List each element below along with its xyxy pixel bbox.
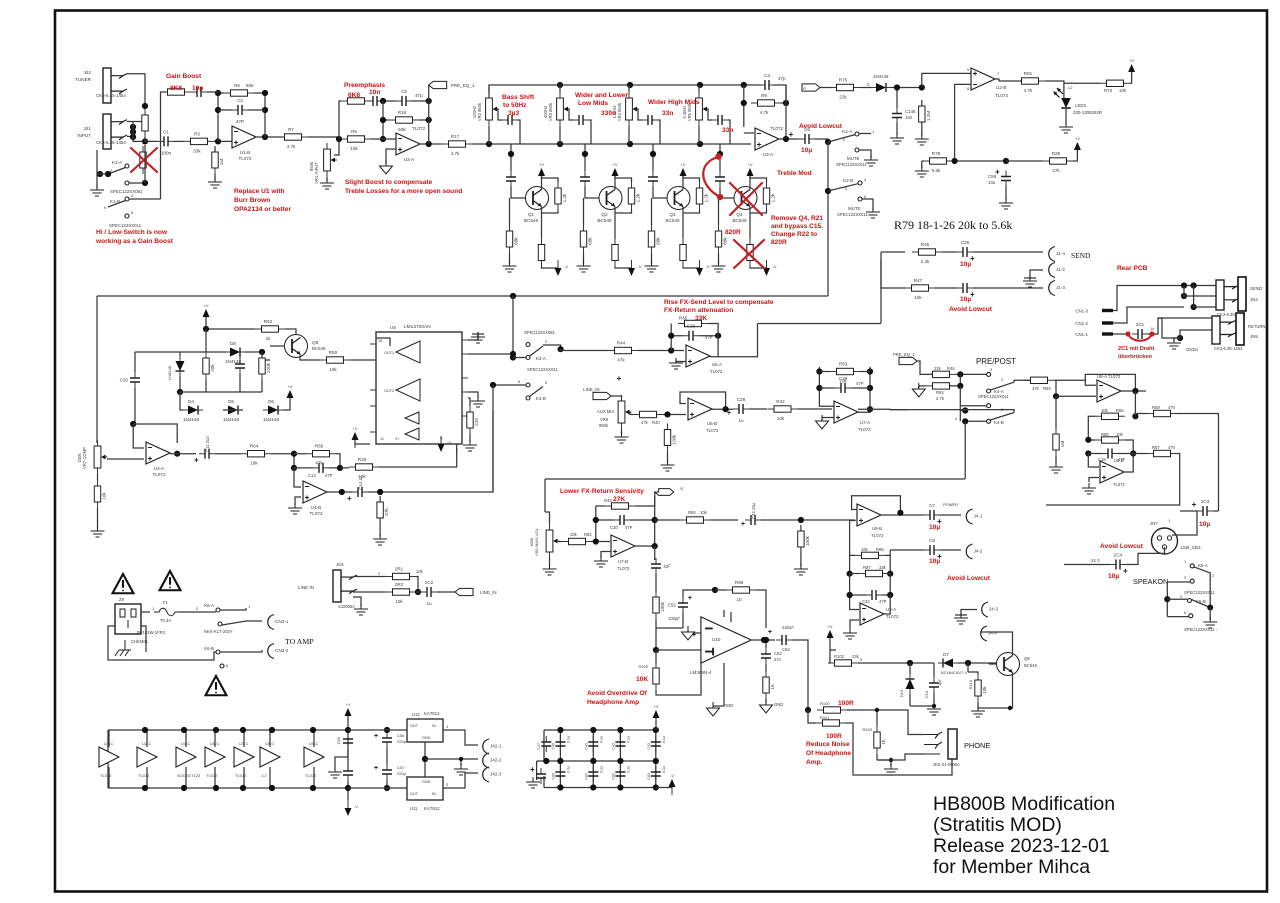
vee Q1 [555, 260, 569, 276]
svg-text:U1-C: U1-C [104, 741, 113, 746]
svg-text:Burr Brown: Burr Brown [234, 197, 270, 204]
junction fb cap right [262, 107, 268, 113]
wire R84 branch [932, 374, 960, 386]
ground U5 a [471, 332, 485, 343]
wire U5 out1 loop [376, 338, 390, 346]
svg-text:1N4148: 1N4148 [183, 417, 200, 422]
svg-text:C64: C64 [924, 690, 929, 698]
svg-text:U9-B: U9-B [872, 526, 882, 531]
op-amp U3-A [755, 128, 779, 150]
resistor R41 100k [664, 424, 676, 452]
capacitor C25 10u [957, 240, 975, 263]
wire send line left [881, 252, 905, 323]
svg-text:SPEC122SX011: SPEC122SX011 [527, 367, 558, 372]
svg-text:R84: R84 [936, 390, 944, 395]
wire VR5 top [698, 85, 700, 92]
wire VR3 bottom [559, 126, 561, 144]
wire R26 to vcc [1073, 150, 1077, 161]
svg-text:C62: C62 [774, 651, 782, 656]
capacitor C26 47P [683, 324, 699, 341]
wire R110 branch [967, 663, 969, 672]
svg-text:R45: R45 [679, 316, 688, 321]
junction bias bottom 5 [269, 785, 275, 791]
svg-text:5.6k: 5.6k [932, 168, 941, 173]
wire C64 branch [933, 663, 935, 677]
svg-text:OUT2: OUT2 [384, 389, 394, 393]
junction U7A fb d [867, 385, 873, 391]
wire R73 to vcc [1130, 72, 1132, 83]
svg-text:Hi / Low-Switch is now: Hi / Low-Switch is now [96, 229, 168, 236]
wire C63 right [792, 640, 808, 710]
wire R110 wires [968, 672, 1010, 708]
vcc Q1 [538, 162, 545, 184]
svg-text:R59: R59 [1152, 405, 1160, 410]
resistor R1 (bypassed) [140, 146, 146, 174]
svg-text:PRE_EQ_1: PRE_EQ_1 [893, 352, 915, 357]
wire R46 to k4 [956, 373, 987, 375]
capacitor C6 10u [799, 127, 815, 144]
svg-text:C8: C8 [929, 538, 935, 543]
svg-text:1k: 1k [881, 739, 886, 745]
wire K6-A nc [222, 621, 262, 625]
junction K2 bus mid [825, 188, 831, 194]
svg-text:OUT: OUT [410, 724, 419, 728]
svg-text:U8-B: U8-B [1114, 458, 1124, 463]
svg-text:0.1u: 0.1u [626, 766, 630, 773]
resistor R59 470 [1147, 410, 1177, 416]
connector J4-4 [981, 626, 987, 641]
junction U8A out [1132, 388, 1138, 394]
wire diode string [180, 392, 290, 410]
svg-text:100k: 100k [660, 601, 665, 612]
svg-text:U6-B: U6-B [707, 421, 717, 426]
wire emitter res Q4 [750, 213, 767, 268]
junction U2A out [426, 141, 432, 147]
capacitor base Q2 [580, 171, 590, 187]
svg-text:4.7k: 4.7k [287, 144, 296, 149]
capacitor grid top 2 [588, 736, 598, 752]
resistor R46 22k [926, 371, 956, 377]
wire vcc to R102 [829, 638, 836, 663]
junction K5 pole2 [1207, 605, 1213, 611]
wire Q6 emitter [1010, 673, 1013, 709]
svg-text:C14 1u: C14 1u [358, 476, 363, 490]
capacitor C64 1uF [929, 677, 939, 693]
resistor 2R1 10k [386, 567, 416, 580]
capacitor EQ band 4 [712, 115, 728, 125]
svg-text:R36: R36 [358, 457, 367, 462]
capacitor C63 220uF [776, 635, 792, 645]
ground VR8 [615, 432, 629, 443]
ground cap grid [526, 777, 540, 788]
svg-text:U3-A: U3-A [763, 152, 774, 157]
wire VR7 wiper to U4A [107, 458, 144, 460]
wire grid bottom bus [544, 787, 656, 789]
svg-text:47P: 47P [625, 525, 633, 530]
svg-text:33k: 33k [193, 148, 201, 153]
svg-text:POWER: POWER [943, 502, 958, 507]
wire K2-B arm [828, 184, 858, 191]
wire C6 to K2 [815, 139, 828, 142]
svg-text:C61: C61 [584, 773, 588, 780]
svg-text:VR1 INPUT: VR1 INPUT [314, 162, 319, 184]
resistor R2 1M [142, 109, 148, 137]
wire K3-B arm [493, 385, 543, 397]
svg-text:0.1u: 0.1u [662, 766, 666, 773]
junction bias cap top [345, 727, 351, 733]
junction U5 out node [510, 351, 516, 357]
svg-text:R65: R65 [315, 444, 324, 449]
wire grid column 3 [619, 730, 621, 788]
junction rear a [1181, 282, 1187, 288]
red node top C15 [715, 153, 721, 159]
svg-text:Z9: Z9 [119, 597, 125, 602]
svg-text:Change R22 to: Change R22 to [771, 231, 817, 238]
ground R37 [373, 534, 387, 545]
capacitor C34 47P [866, 590, 882, 600]
svg-text:R16: R16 [398, 110, 407, 115]
svg-text:R17: R17 [451, 134, 460, 139]
wire C26 leads [671, 335, 718, 337]
svg-text:1.2k: 1.2k [704, 193, 709, 202]
svg-text:L2: L2 [1068, 85, 1073, 90]
junction U4A fb top [130, 421, 136, 427]
ic U5 LM13700AN body [376, 332, 462, 444]
capacitor C68 [343, 765, 353, 781]
wire U10 gnd bottom [713, 705, 724, 707]
ground R85 [794, 564, 808, 575]
svg-text:Slight Boost to compensate: Slight Boost to compensate [345, 179, 433, 186]
resistor R45 33K [678, 316, 708, 327]
svg-text:working as a Gain Boost: working as a Gain Boost [95, 238, 174, 245]
junction U4A out [174, 451, 180, 457]
junction preemph mid [380, 98, 386, 104]
wire base cap to base Q1 [511, 187, 531, 198]
resistor R9 4.7k [751, 93, 781, 115]
svg-text:1.2M: 1.2M [926, 111, 931, 121]
svg-text:U10: U10 [712, 637, 721, 642]
svg-text:Avoid Lowcut: Avoid Lowcut [949, 306, 993, 313]
svg-text:4.7k: 4.7k [936, 396, 945, 401]
resistor R29 1.2k [763, 182, 775, 210]
diode D10 1N4148 [906, 674, 915, 694]
resistor R110 10k [975, 674, 987, 702]
capacitor base Q3 [648, 171, 658, 187]
junction opamp out [783, 136, 789, 142]
junction U4B out [339, 489, 345, 495]
wire K2 riser [827, 142, 829, 296]
wire emitter Q4 [749, 207, 751, 214]
wire Z9 to fuse [141, 611, 150, 613]
junction R58 node [1053, 393, 1059, 399]
capacitor C49 10u [191, 87, 207, 97]
svg-text:2C4: 2C4 [1114, 553, 1123, 558]
wire R51 bottom [205, 380, 207, 392]
wire R84b to C33 [710, 519, 738, 521]
wire U4B out [327, 491, 352, 493]
svg-text:10µ: 10µ [929, 558, 940, 565]
junction U7A fb a [816, 368, 822, 374]
wire CN1-3 up [1113, 286, 1216, 311]
op-amp U6-B [688, 398, 712, 420]
wire EQ band cap 2 down [589, 120, 591, 144]
junction k4 node a [957, 371, 963, 377]
svg-text:U7-C: U7-C [239, 741, 248, 746]
wire C7 to J41 out [940, 514, 961, 516]
connector J4-3 [982, 602, 988, 617]
junction bias bottom 2 [181, 785, 187, 791]
svg-text:10: 10 [736, 597, 742, 602]
junction gnd zener [932, 704, 936, 708]
svg-text:220µ: 220µ [397, 739, 407, 744]
svg-text:C17: C17 [537, 743, 541, 750]
wire 2C3 wires [1180, 510, 1219, 512]
svg-text:J42-1: J42-1 [490, 744, 502, 749]
wire U1-C vcc [108, 730, 110, 788]
junction k4 node b [957, 383, 963, 389]
wire K1-B arm [108, 201, 126, 208]
junction U1 inv node [215, 138, 221, 144]
wire K5 pin6 [1167, 616, 1189, 618]
capacitor C56 220u [382, 732, 392, 748]
svg-text:MUTE: MUTE [847, 156, 860, 161]
svg-text:8K6: 8K6 [170, 85, 182, 92]
svg-text:D5: D5 [228, 399, 234, 404]
wire R39 wires [468, 398, 470, 442]
svg-text:K6-A: K6-A [204, 603, 214, 608]
svg-text:R44: R44 [617, 341, 626, 346]
op-amp U7-A [834, 401, 858, 423]
svg-text:U2-A: U2-A [404, 157, 415, 162]
junction out node top [783, 100, 789, 106]
svg-text:47P: 47P [879, 599, 887, 604]
svg-text:Treble Mod: Treble Mod [777, 170, 812, 177]
plug CN1-2 [1102, 321, 1113, 324]
wire C62 branch [765, 640, 767, 648]
svg-text:10K: 10K [636, 676, 648, 683]
svg-text:+V: +V [352, 426, 357, 431]
wire U9A in [850, 595, 859, 610]
wire grid top bus [544, 729, 656, 731]
ground C146 [890, 133, 904, 144]
wire VR1 bottom [326, 177, 328, 181]
net flag LINE_IN mid [593, 392, 611, 399]
svg-text:Avoid Lowcut: Avoid Lowcut [799, 123, 843, 130]
svg-text:U6-C: U6-C [210, 741, 219, 746]
resistor R98 10 [726, 580, 756, 602]
junction rear c [1181, 293, 1187, 299]
svg-text:+V: +V [345, 702, 350, 707]
junction rear d [1191, 304, 1197, 310]
wire U9-C vcc [313, 730, 315, 788]
svg-text:220uF: 220uF [782, 625, 794, 630]
junction C59 node [1003, 158, 1009, 164]
svg-text:+: + [374, 765, 378, 772]
svg-text:U12: U12 [412, 712, 420, 717]
net flag A top [802, 84, 820, 91]
wire U6A fb left [670, 324, 672, 351]
svg-text:CN3-1: CN3-1 [275, 619, 289, 624]
svg-text:K5-A: K5-A [1198, 563, 1208, 568]
connector J1-4 SEND [1049, 247, 1055, 262]
svg-text:C63: C63 [647, 773, 651, 780]
wire Z9 bottom loop [108, 626, 216, 660]
svg-text:IN: IN [432, 724, 436, 728]
wire U4B gnd [295, 497, 301, 505]
connector J4-2 [966, 544, 972, 559]
wire collector Q1 [541, 176, 543, 190]
junction bias cap bottom [345, 785, 351, 791]
wire U2B inv [955, 84, 972, 161]
svg-text:+V: +V [1129, 58, 1134, 63]
ground Q4 cell [712, 261, 726, 272]
svg-text:U11: U11 [410, 806, 418, 811]
wire long bus y296 [97, 295, 828, 297]
op-amp U2-B [971, 68, 995, 90]
wire K5 gnd [1209, 608, 1211, 621]
junction bias bottom 3 [213, 785, 219, 791]
junction c52 top [712, 587, 718, 593]
svg-text:100R: 100R [826, 733, 842, 740]
wire K2-A nc2 gnd [859, 150, 871, 158]
svg-text:50k: 50k [246, 83, 254, 88]
wire R8 out [371, 138, 396, 140]
wire R103 gnd [877, 760, 891, 766]
wire R87 wires [850, 573, 891, 575]
svg-text:J1-4: J1-4 [1056, 251, 1065, 256]
wire VR2 top [488, 85, 490, 92]
wire R22 gnd [718, 253, 720, 264]
svg-text:22k: 22k [852, 654, 860, 659]
svg-text:Q8: Q8 [312, 340, 319, 345]
wire k6 links [141, 626, 146, 652]
wire R50 to U5 [350, 359, 376, 361]
svg-text:C52: C52 [668, 603, 677, 608]
svg-text:R103: R103 [862, 727, 872, 732]
svg-text:TL072: TL072 [305, 773, 317, 778]
switch K6-B [216, 650, 220, 654]
capacitor grid top 1 [555, 736, 565, 752]
wire C20 to U4A [133, 423, 135, 425]
vee Q2 [628, 260, 642, 276]
svg-text:47k: 47k [641, 420, 649, 425]
svg-text:CN3-2: CN3-2 [275, 648, 289, 653]
wire VR9 wiper [558, 541, 562, 543]
junction EQ top bus 4 [741, 82, 747, 88]
wire K3B riser [492, 385, 494, 492]
svg-text:10k: 10k [777, 416, 785, 421]
svg-text:SPEC122SX011: SPEC122SX011 [837, 212, 868, 217]
svg-text:U4-A: U4-A [154, 466, 165, 471]
svg-text:Headphone Amp: Headphone Amp [587, 699, 639, 706]
wire C62 to R99 [765, 664, 767, 672]
svg-text:C18: C18 [1098, 457, 1106, 462]
svg-text:C1: C1 [163, 129, 169, 134]
wire return line [881, 260, 905, 288]
ground R41 [661, 460, 675, 471]
wire R16 left [383, 119, 429, 121]
svg-text:Treble Losses for a more open: Treble Losses for a more open sound [345, 188, 462, 195]
svg-text:GND: GND [774, 702, 783, 707]
resistor R53b 220k [259, 352, 271, 380]
junction bias bottom 1 [142, 785, 148, 791]
wire K2-A nc [859, 133, 871, 135]
svg-text:C41: C41 [584, 743, 588, 750]
wire U9B out [881, 514, 924, 516]
wire Q6 base [989, 663, 997, 664]
capacitor 2C4 10u [1110, 553, 1128, 576]
potentiometer VR1 INPUT 850k [324, 143, 337, 177]
svg-text:2C1 mit Draht: 2C1 mit Draht [1118, 346, 1155, 352]
op-amp U10 LM386 [701, 617, 751, 663]
wire R76 gnd [921, 128, 923, 136]
svg-text:T0.3A: T0.3A [160, 618, 171, 623]
wire LED branch right [1064, 82, 1100, 84]
vcc bias row [345, 702, 352, 724]
svg-text:LN8148: LN8148 [167, 365, 172, 380]
svg-text:C146: C146 [905, 109, 916, 114]
vcc Q3 [680, 162, 687, 184]
switch K5 pin3 [1190, 579, 1194, 583]
svg-text:R47: R47 [914, 278, 923, 283]
svg-text:+: + [768, 627, 773, 636]
potentiometer VR5 850k 6.4kHz [696, 92, 709, 126]
ground R79 [915, 166, 929, 177]
ground R30 [91, 526, 105, 537]
svg-text:10µ: 10µ [192, 85, 203, 92]
svg-text:Gain Boost: Gain Boost [166, 73, 202, 80]
svg-text:R45: R45 [921, 242, 930, 247]
svg-text:BC549: BC549 [732, 218, 746, 223]
svg-text:1N4148: 1N4148 [225, 359, 242, 364]
transistor Q8 BC549 [285, 335, 308, 358]
wire LED gnd [1065, 108, 1067, 124]
junction line in [415, 589, 421, 595]
regulator U11 KA7912 [407, 777, 443, 800]
wire R28 top [683, 176, 700, 182]
svg-text:TL072: TL072 [138, 773, 150, 778]
svg-text:1µF: 1µF [937, 678, 942, 686]
wire comp node down [205, 329, 207, 352]
svg-text:TL072: TL072 [886, 614, 899, 619]
svg-text:TL072: TL072 [995, 93, 1008, 98]
capacitor C3 47p [759, 73, 775, 90]
wire U6A out [710, 324, 758, 357]
svg-text:R73: R73 [1104, 88, 1113, 93]
ground GND1 [1167, 338, 1181, 349]
wire J1-2 gnd [1024, 270, 1043, 278]
switch K5 pin6 [1189, 614, 1193, 618]
wire R29 top [750, 176, 767, 182]
junction k4 node d [962, 418, 968, 424]
svg-text:R3: R3 [194, 131, 200, 136]
agnd R99 [760, 699, 773, 713]
diode D5 1N4148 [223, 406, 243, 415]
wire U5 vminus [456, 448, 458, 452]
junction hp node [653, 647, 659, 653]
svg-text:68k: 68k [514, 237, 519, 245]
capacitor base Q1 [506, 171, 516, 187]
svg-text:+V: +V [287, 384, 292, 389]
wire hp c52 branch [656, 612, 683, 628]
wire R65 wires [294, 454, 340, 468]
junction grid mid left [543, 758, 549, 764]
net flag PRE_EQ_1 [429, 81, 447, 88]
svg-text:J4-2: J4-2 [974, 549, 983, 554]
wire C18 leads [1088, 453, 1133, 455]
junction VR1 top [336, 136, 342, 142]
capacitor C52 100uF [668, 597, 688, 613]
